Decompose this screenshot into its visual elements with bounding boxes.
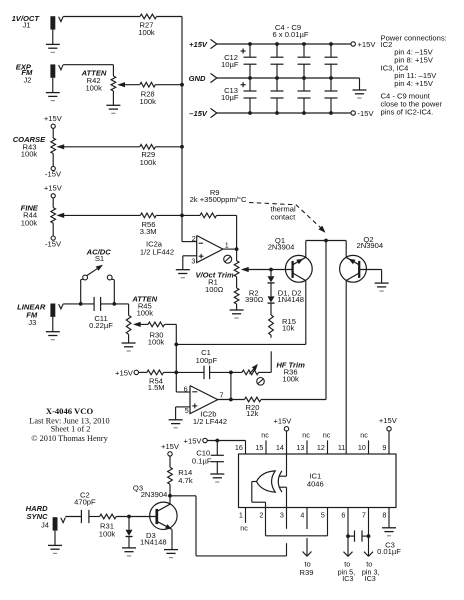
svg-text:4: 4 <box>300 511 304 520</box>
svg-text:2N3904: 2N3904 <box>356 241 383 250</box>
svg-text:J3: J3 <box>28 318 36 327</box>
svg-text:IC3: IC3 <box>342 574 353 583</box>
svg-text:6 x 0.01µF: 6 x 0.01µF <box>272 30 308 39</box>
svg-text:390Ω: 390Ω <box>245 295 264 304</box>
svg-text:2N3904: 2N3904 <box>268 242 295 251</box>
svg-text:+15V: +15V <box>161 442 180 451</box>
svg-text:J1: J1 <box>22 21 30 30</box>
svg-text:0.22µF: 0.22µF <box>89 321 113 330</box>
svg-text:100k: 100k <box>148 338 165 347</box>
svg-text:2: 2 <box>259 511 263 520</box>
svg-text:11: 11 <box>338 443 345 452</box>
svg-text:pins of IC2-IC4.: pins of IC2-IC4. <box>381 107 434 116</box>
svg-text:Sheet 1 of 2: Sheet 1 of 2 <box>51 424 91 433</box>
svg-text:pin 4: +15V: pin 4: +15V <box>394 79 434 88</box>
svg-text:14: 14 <box>276 443 284 452</box>
svg-text:10k: 10k <box>282 324 294 333</box>
svg-text:1/2 LF442: 1/2 LF442 <box>140 248 174 257</box>
svg-text:2N3904: 2N3904 <box>141 490 168 499</box>
svg-text:0.1µF: 0.1µF <box>192 457 212 466</box>
svg-text:contact: contact <box>271 212 296 221</box>
svg-text:3.3M: 3.3M <box>140 227 157 236</box>
svg-text:1.5M: 1.5M <box>148 383 165 392</box>
svg-text:© 2010 Thomas Henry: © 2010 Thomas Henry <box>31 434 108 443</box>
svg-text:+15V: +15V <box>358 40 377 49</box>
svg-text:IC2: IC2 <box>381 40 393 49</box>
svg-text:S1: S1 <box>95 254 104 263</box>
svg-text:10µF: 10µF <box>221 93 239 102</box>
svg-text:1: 1 <box>225 240 229 249</box>
svg-text:nc: nc <box>360 431 368 440</box>
svg-text:4046: 4046 <box>307 479 324 488</box>
svg-text:+15V: +15V <box>44 114 63 123</box>
svg-text:12k: 12k <box>246 409 258 418</box>
svg-text:10: 10 <box>358 443 366 452</box>
svg-text:X-4046 VCO: X-4046 VCO <box>46 406 94 416</box>
svg-text:J4: J4 <box>41 521 49 530</box>
svg-text:1: 1 <box>239 511 243 520</box>
svg-text:J2: J2 <box>23 75 31 84</box>
svg-text:100k: 100k <box>21 218 38 227</box>
svg-text:8: 8 <box>382 511 386 520</box>
svg-text:3: 3 <box>280 511 284 520</box>
svg-text:+15V: +15V <box>184 436 203 445</box>
svg-text:100k: 100k <box>85 83 102 92</box>
svg-text:nc: nc <box>323 431 331 440</box>
svg-text:1/2 LF442: 1/2 LF442 <box>193 417 227 426</box>
svg-text:-15V: -15V <box>45 239 62 248</box>
svg-text:100k: 100k <box>138 28 155 37</box>
svg-text:nc: nc <box>302 431 310 440</box>
svg-text:100k: 100k <box>21 150 38 159</box>
svg-text:-15V: -15V <box>358 109 375 118</box>
svg-text:1N4148: 1N4148 <box>277 295 304 304</box>
svg-text:nc: nc <box>240 524 248 533</box>
svg-text:100k: 100k <box>140 158 157 167</box>
svg-text:12: 12 <box>317 443 325 452</box>
svg-text:2k +3500ppm/°C: 2k +3500ppm/°C <box>190 195 247 204</box>
svg-text:15: 15 <box>255 443 263 452</box>
svg-text:+15V: +15V <box>44 183 63 192</box>
svg-text:470pF: 470pF <box>74 498 96 507</box>
svg-text:IC3: IC3 <box>365 574 376 583</box>
svg-text:7: 7 <box>362 511 366 520</box>
svg-text:100pF: 100pF <box>196 356 218 365</box>
svg-text:3: 3 <box>191 257 195 266</box>
svg-text:–15V: –15V <box>189 109 208 118</box>
svg-text:4.7k: 4.7k <box>178 476 193 485</box>
svg-text:-15V: -15V <box>45 170 62 179</box>
svg-text:100k: 100k <box>139 97 156 106</box>
svg-text:6: 6 <box>341 511 345 520</box>
svg-text:10µF: 10µF <box>221 60 239 69</box>
svg-text:+15V: +15V <box>379 416 398 425</box>
svg-text:nc: nc <box>261 431 269 440</box>
svg-text:+15V: +15V <box>189 40 208 49</box>
svg-text:+15V: +15V <box>115 368 134 377</box>
svg-text:0.01µF: 0.01µF <box>377 547 401 556</box>
svg-text:100k: 100k <box>137 308 154 317</box>
svg-text:+15V: +15V <box>273 416 292 425</box>
svg-text:7: 7 <box>220 390 224 399</box>
svg-text:100Ω: 100Ω <box>205 285 224 294</box>
svg-text:R39: R39 <box>300 568 314 577</box>
svg-text:9: 9 <box>382 443 386 452</box>
svg-text:2: 2 <box>192 234 196 243</box>
svg-text:GND: GND <box>189 74 206 83</box>
svg-text:1N4148: 1N4148 <box>140 538 167 547</box>
svg-text:13: 13 <box>296 443 304 452</box>
svg-text:100k: 100k <box>99 530 116 539</box>
svg-text:16: 16 <box>235 443 243 452</box>
svg-text:5: 5 <box>321 511 325 520</box>
svg-text:100k: 100k <box>282 375 299 384</box>
